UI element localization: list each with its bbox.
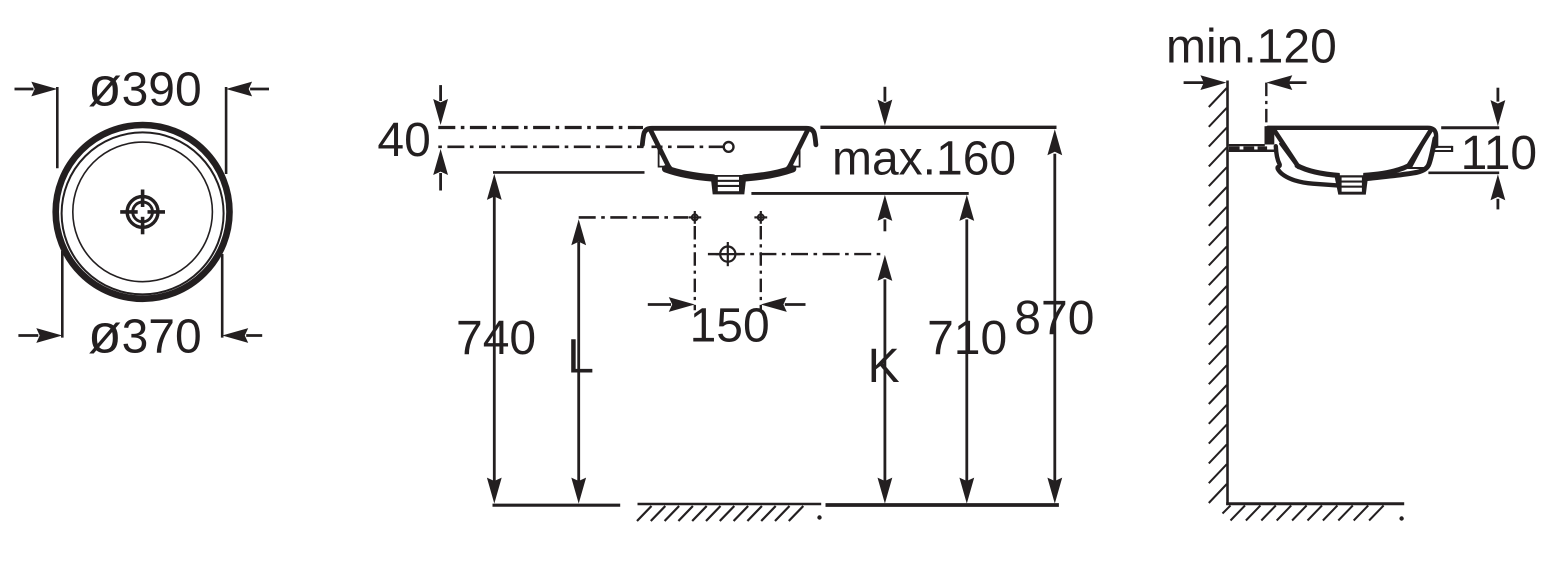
svg-text:ø370: ø370 <box>88 303 202 365</box>
svg-text:870: 870 <box>1014 292 1094 345</box>
svg-text:max.160: max.160 <box>832 133 1016 186</box>
svg-text:K: K <box>868 340 900 393</box>
svg-text:min.120: min.120 <box>1166 21 1337 74</box>
svg-text:110: 110 <box>1461 127 1538 180</box>
svg-text:ø390: ø390 <box>88 56 202 118</box>
svg-text:L: L <box>567 331 594 384</box>
svg-text:710: 710 <box>927 312 1007 365</box>
svg-text:150: 150 <box>690 300 770 353</box>
svg-text:740: 740 <box>456 312 536 365</box>
svg-text:40: 40 <box>377 114 430 167</box>
